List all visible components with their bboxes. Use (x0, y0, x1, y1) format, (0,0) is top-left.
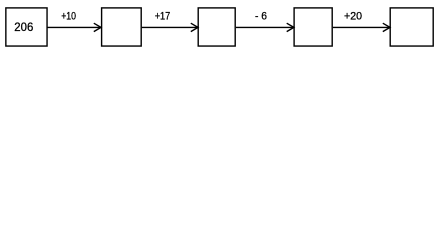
svg-text:+10: +10 (61, 10, 76, 22)
svg-text:+17: +17 (155, 10, 171, 22)
box 5 (390, 8, 433, 46)
arrow box2 to box3 (142, 23, 198, 31)
box 3 (198, 8, 235, 46)
arrow box4 to box5 (333, 23, 390, 31)
svg-text:206: 206 (14, 20, 33, 34)
box 4 (294, 8, 332, 46)
svg-text:+20: +20 (344, 10, 362, 22)
box 2 (102, 8, 142, 46)
arrow box1 to box2 (48, 23, 102, 31)
box 1 (value 206) (6, 8, 47, 46)
svg-text:- 6: - 6 (255, 10, 267, 22)
arrow box3 to box4 (236, 23, 294, 31)
